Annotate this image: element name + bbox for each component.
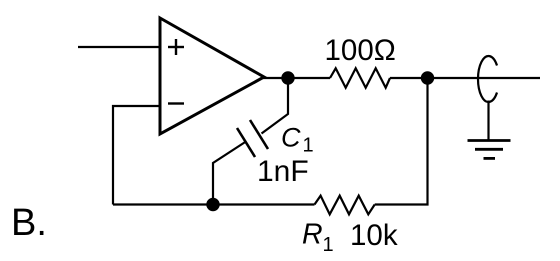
svg-text:1: 1 [323,234,334,256]
svg-text:C: C [281,123,301,153]
svg-text:100Ω: 100Ω [325,34,396,67]
svg-text:1: 1 [303,135,314,157]
svg-text:10k: 10k [350,219,398,252]
svg-text:B.: B. [11,202,47,244]
svg-text:R: R [302,219,323,251]
svg-text:1nF: 1nF [257,155,309,188]
